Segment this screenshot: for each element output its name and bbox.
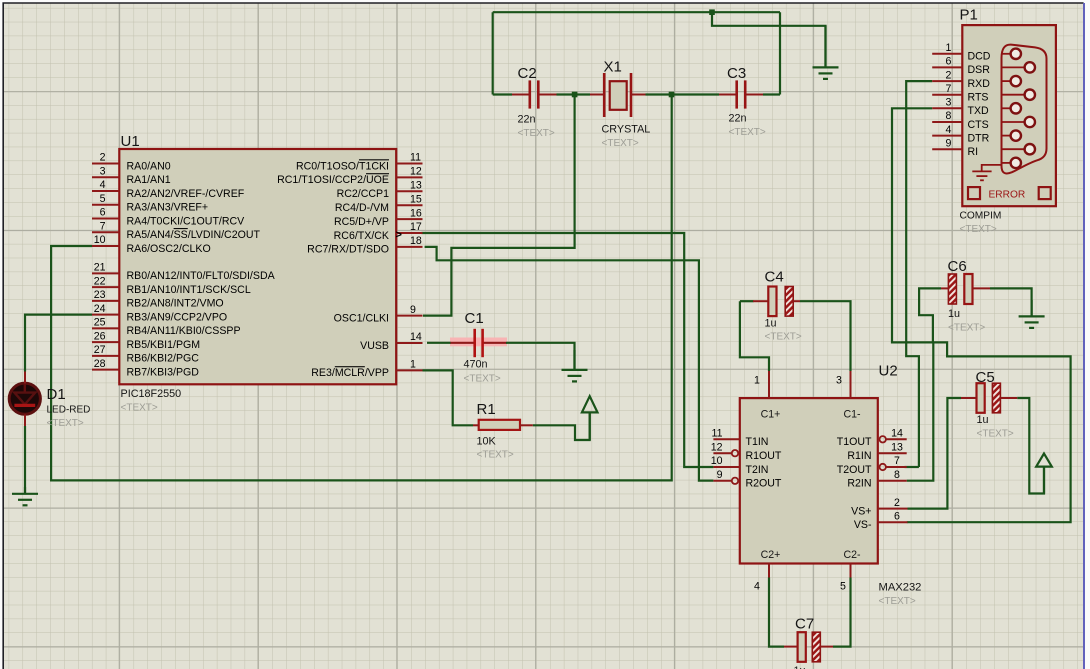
P1 pin 2 RXD: [932, 80, 962, 82]
svg-text:13: 13: [410, 180, 422, 192]
svg-text:<TEXT>: <TEXT>: [518, 128, 555, 139]
svg-text:RA1/AN1: RA1/AN1: [127, 174, 171, 186]
C5 right pin: [1001, 397, 1018, 399]
svg-text:RE3/MCLR/VPP: RE3/MCLR/VPP: [311, 367, 389, 379]
U1 pin 5: [92, 204, 119, 206]
U1 pin 13: [396, 190, 422, 192]
C3 left pin: [719, 94, 737, 96]
svg-text:C4: C4: [765, 269, 784, 286]
svg-text:RA3/AN3/VREF+: RA3/AN3/VREF+: [127, 202, 209, 214]
U2 pin 11 T1IN: [713, 438, 739, 440]
svg-text:5: 5: [100, 193, 106, 205]
R1 left pin: [473, 424, 479, 426]
svg-text:24: 24: [94, 303, 106, 315]
wire: LED cathode down: [24, 426, 26, 494]
capacitor C6 (polarized): [948, 274, 972, 304]
svg-text:RC7/RX/DT/SDO: RC7/RX/DT/SDO: [307, 244, 389, 256]
wire: VS+ to C5 left: [908, 398, 962, 509]
svg-text:>: >: [396, 229, 402, 241]
P1 pin 4 DTR: [932, 135, 962, 137]
wire: RB3 pin 24 to LED anode: [25, 315, 92, 372]
svg-text:RC5/D+/VP: RC5/D+/VP: [334, 216, 389, 228]
svg-text:C1: C1: [465, 310, 484, 327]
svg-text:1: 1: [754, 375, 760, 387]
highlight band on VUSB net: [450, 338, 507, 347]
svg-text:TXD: TXD: [968, 105, 990, 117]
wire: C2 to X1: [557, 93, 591, 95]
svg-text:14: 14: [410, 331, 422, 343]
U1 pin 11: [396, 163, 422, 165]
svg-text:13: 13: [891, 441, 903, 453]
U1 pin 1: [396, 369, 422, 371]
svg-text:DTR: DTR: [968, 132, 990, 144]
svg-text:R2IN: R2IN: [847, 478, 871, 490]
wire: RC7/RX to R2OUT: [425, 247, 714, 481]
U1 pin 16: [396, 218, 422, 220]
svg-text:22: 22: [94, 275, 106, 287]
wire: C3 right: [763, 93, 780, 95]
svg-text:RXD: RXD: [968, 78, 991, 90]
wire: C6 right to ground: [990, 288, 1032, 316]
capacitor C4 (polarized): [768, 287, 793, 317]
svg-text:<TEXT>: <TEXT>: [977, 429, 1014, 440]
U1 pin 27: [92, 355, 119, 357]
svg-text:6: 6: [946, 56, 952, 68]
svg-text:12: 12: [711, 441, 723, 453]
svg-text:RB0/AN12/INT0/FLT0/SDI/SDA: RB0/AN12/INT0/FLT0/SDI/SDA: [127, 270, 276, 282]
svg-text:<TEXT>: <TEXT>: [948, 323, 985, 334]
svg-text:VUSB: VUSB: [360, 340, 389, 352]
svg-text:<TEXT>: <TEXT>: [464, 374, 501, 385]
svg-text:8: 8: [946, 110, 952, 122]
svg-text:RA2/AN2/VREF-/CVREF: RA2/AN2/VREF-/CVREF: [127, 188, 245, 200]
P1 ERROR indicator: [968, 187, 1051, 199]
svg-text:RA5/AN4/SS/LVDIN/C2OUT: RA5/AN4/SS/LVDIN/C2OUT: [127, 229, 261, 241]
C4 left pin: [753, 300, 768, 302]
U1 pin 28: [92, 369, 119, 371]
U2 pin 13 R1IN: [878, 452, 907, 454]
svg-text:10K: 10K: [477, 436, 497, 448]
capacitor C2: [530, 80, 539, 108]
svg-text:<TEXT>: <TEXT>: [477, 450, 514, 461]
wire: MCLR pin1 to R1: [423, 370, 474, 425]
svg-text:5: 5: [840, 581, 846, 593]
svg-text:C2+: C2+: [761, 549, 781, 561]
capacitor C1: [475, 329, 483, 357]
svg-text:470n: 470n: [464, 359, 488, 371]
U2 pin 9 R2OUT: [713, 480, 731, 482]
crystal X1: [604, 73, 631, 117]
C3 right pin: [745, 94, 763, 96]
ground: right of C1: [562, 350, 588, 381]
svg-text:28: 28: [94, 358, 106, 370]
svg-text:RB4/AN11/KBI0/CSSPP: RB4/AN11/KBI0/CSSPP: [127, 325, 241, 337]
svg-text:2: 2: [894, 497, 900, 509]
svg-text:3: 3: [100, 165, 106, 177]
C6 left pin: [941, 287, 948, 289]
ground: below LED: [12, 487, 38, 505]
svg-text:T2IN: T2IN: [746, 464, 769, 476]
U2 pin 2 VS+: [878, 508, 908, 510]
U2 pin 1: [768, 371, 770, 398]
svg-text:7: 7: [894, 455, 900, 467]
C2 right pin: [538, 94, 556, 96]
svg-text:RTS: RTS: [968, 92, 989, 104]
svg-text:18: 18: [410, 235, 422, 247]
P1 COMPIM body: [962, 25, 1056, 206]
wire: C4 left lead: [740, 300, 754, 302]
svg-text:9: 9: [946, 137, 952, 149]
power symbol: +5V arrow near C5: [1036, 454, 1052, 494]
svg-text:C2: C2: [518, 65, 537, 82]
svg-text:RB5/KBI1/PGM: RB5/KBI1/PGM: [127, 339, 201, 351]
svg-text:1: 1: [410, 359, 416, 371]
svg-text:22n: 22n: [518, 114, 536, 126]
D1 cathode pin: [24, 415, 26, 427]
svg-text:<TEXT>: <TEXT>: [47, 418, 84, 429]
U2 pin 12 R1OUT: [713, 452, 731, 454]
svg-text:LED-RED: LED-RED: [47, 405, 91, 416]
svg-text:C2-: C2-: [843, 549, 861, 561]
svg-text:COMPIM: COMPIM: [960, 211, 1002, 222]
svg-text:DSR: DSR: [968, 64, 991, 76]
svg-text:C3: C3: [727, 65, 746, 82]
svg-text:RB2/AN8/INT2/VMO: RB2/AN8/INT2/VMO: [127, 298, 224, 310]
wire: RC6/TX to T2IN: [421, 233, 713, 467]
U1 pin 2: [92, 163, 119, 165]
wire: C5 right to +5V: [1017, 398, 1044, 494]
svg-text:RA0/AN0: RA0/AN0: [127, 160, 171, 172]
wire (red net): C1 right lead: [483, 342, 507, 344]
C4 right pin: [793, 300, 800, 302]
wire: C4 left to C1+ pin 1: [740, 301, 769, 371]
U1 pin 24: [92, 314, 119, 316]
svg-text:<TEXT>: <TEXT>: [765, 332, 802, 343]
LED D1: [9, 383, 40, 414]
svg-text:C1+: C1+: [761, 409, 781, 421]
P1 pin 3 TXD: [932, 107, 962, 109]
svg-text:<TEXT>: <TEXT>: [879, 596, 916, 607]
svg-text:15: 15: [410, 193, 422, 205]
svg-text:2: 2: [100, 152, 106, 164]
svg-text:RC6/TX/CK: RC6/TX/CK: [334, 230, 389, 242]
U1 pin 22: [92, 286, 119, 288]
junction: X1 right node: [669, 92, 675, 98]
wire (red net): C1 left lead: [451, 342, 475, 344]
svg-text:CRYSTAL: CRYSTAL: [602, 124, 651, 136]
power symbol: +5V arrow near R1: [582, 396, 598, 440]
U1 pin 17: [396, 232, 422, 234]
svg-text:T1OUT: T1OUT: [837, 436, 872, 448]
svg-text:R2OUT: R2OUT: [746, 478, 782, 490]
wire: C1 to ground: [506, 343, 575, 370]
svg-text:RC2/CCP1: RC2/CCP1: [337, 188, 390, 200]
svg-text:26: 26: [94, 330, 106, 342]
U1 pin 12: [396, 176, 422, 178]
svg-text:X1: X1: [604, 59, 622, 76]
wire: T2OUT to RXD riser: [905, 466, 919, 468]
svg-text:9: 9: [717, 469, 723, 481]
svg-text:R1OUT: R1OUT: [746, 450, 782, 462]
svg-text:<TEXT>: <TEXT>: [729, 127, 766, 138]
svg-text:16: 16: [410, 207, 422, 219]
svg-text:7: 7: [946, 83, 952, 95]
wire: VS- loop to C6 left: [907, 288, 1071, 522]
svg-text:6: 6: [100, 207, 106, 219]
U2 pin 14 T1OUT: [886, 438, 907, 440]
wire: osc loop left vertical: [492, 12, 494, 94]
U1 pin 26: [92, 341, 119, 343]
U2 pin 3: [850, 371, 852, 398]
svg-text:T2OUT: T2OUT: [837, 464, 872, 476]
svg-text:CTS: CTS: [968, 119, 989, 131]
svg-text:R1: R1: [477, 401, 496, 418]
svg-text:<TEXT>: <TEXT>: [960, 224, 997, 235]
wire: R2IN up riser (TXD): [907, 342, 934, 480]
R1 right pin: [520, 424, 533, 426]
P1 internal ground: [972, 165, 1001, 180]
svg-text:<TEXT>: <TEXT>: [602, 138, 639, 149]
svg-text:RB3/AN9/CCP2/VPO: RB3/AN9/CCP2/VPO: [127, 311, 228, 323]
U1 pin 25: [92, 327, 119, 329]
svg-text:4: 4: [754, 581, 760, 593]
svg-text:RC0/T1OSO/T1CKI: RC0/T1OSO/T1CKI: [296, 160, 389, 172]
svg-text:U2: U2: [879, 363, 898, 380]
U2 pin 6 VS-: [878, 521, 908, 523]
svg-text:3: 3: [836, 375, 842, 387]
wire: X1 right node to RA6/OSC2 pin 10: [51, 95, 672, 481]
U2 pin 8 R2IN: [878, 480, 907, 482]
svg-text:21: 21: [94, 262, 106, 274]
wire: C4 right to C1- pin 3: [800, 301, 851, 371]
svg-text:RI: RI: [968, 146, 979, 158]
svg-text:RC4/D-/VM: RC4/D-/VM: [335, 202, 389, 214]
capacitor C3: [737, 80, 746, 108]
wire: X1 to C3: [646, 93, 720, 95]
U1 pin 15: [396, 204, 422, 206]
P1 pin 7 RTS: [932, 94, 962, 96]
wire: COMPIM RXD down to T2OUT: [906, 81, 932, 467]
svg-text:RB1/AN10/INT1/SCK/SCL: RB1/AN10/INT1/SCK/SCL: [127, 284, 251, 296]
C6 right pin: [973, 287, 990, 289]
U2 pin 4: [768, 564, 770, 578]
svg-text:D1: D1: [47, 386, 66, 403]
P1 pin 9 RI: [932, 148, 962, 150]
svg-text:MAX232: MAX232: [879, 582, 922, 594]
svg-text:11: 11: [410, 152, 421, 164]
U1 pin 23: [92, 300, 119, 302]
wire: C7 to C2- pin 5: [833, 578, 851, 647]
svg-text:1u: 1u: [977, 414, 989, 426]
svg-text:2: 2: [946, 69, 952, 81]
svg-text:RC1/T1OSI/CCP2/UOE: RC1/T1OSI/CCP2/UOE: [277, 174, 389, 186]
resistor R1: [479, 420, 520, 430]
svg-text:22n: 22n: [729, 113, 747, 125]
svg-text:17: 17: [410, 221, 422, 233]
U1 pin 4: [92, 190, 119, 192]
P1 pin 1 DCD: [932, 53, 962, 55]
U2 pin 7 T2OUT: [886, 466, 907, 468]
svg-text:VS+: VS+: [851, 505, 871, 517]
wire: osc top horizontal: [493, 11, 780, 13]
C7 left pin: [784, 646, 798, 648]
U1 PIC18F2550 body: [119, 149, 396, 384]
U1 pin 6: [92, 218, 119, 220]
D1 anode pin: [24, 372, 26, 384]
svg-text:11: 11: [712, 428, 723, 440]
ground: right of C6: [1019, 300, 1045, 328]
svg-text:<TEXT>: <TEXT>: [121, 403, 158, 414]
C5 left pin: [961, 397, 977, 399]
svg-text:1: 1: [946, 42, 952, 54]
svg-text:DCD: DCD: [968, 51, 991, 63]
capacitor C7 (polarized): [798, 632, 821, 662]
svg-text:25: 25: [94, 317, 106, 329]
wire: C2+ pin 4 to C7: [769, 578, 784, 647]
svg-text:OSC1/CLKI: OSC1/CLKI: [334, 312, 389, 324]
svg-text:PIC18F2550: PIC18F2550: [121, 388, 182, 400]
P1 DB9 holes: [1002, 53, 1011, 55]
svg-text:12: 12: [410, 166, 422, 178]
U2 MAX232 body: [740, 398, 878, 563]
U1 pin 21: [92, 272, 119, 274]
svg-text:RA4/T0CKI/C1OUT/RCV: RA4/T0CKI/C1OUT/RCV: [127, 215, 246, 227]
svg-text:9: 9: [410, 304, 416, 316]
X1 left pin: [590, 94, 604, 96]
svg-text:C1-: C1-: [843, 409, 861, 421]
wire: pin14 to C1: [427, 342, 451, 344]
svg-text:C5: C5: [976, 369, 995, 386]
svg-text:8: 8: [894, 469, 900, 481]
wire: top loop to ground: [712, 12, 826, 67]
U1 pin 3: [92, 176, 119, 178]
C2 left pin: [512, 94, 530, 96]
U1 pin 7: [92, 231, 119, 233]
svg-text:R1IN: R1IN: [847, 450, 871, 462]
svg-text:P1: P1: [960, 7, 978, 24]
svg-text:23: 23: [94, 289, 106, 301]
wire: R1 to +5V: [533, 412, 590, 440]
svg-text:T1IN: T1IN: [746, 436, 769, 448]
C7 right pin: [820, 646, 833, 648]
svg-text:10: 10: [711, 455, 723, 467]
wire: C2 left: [493, 93, 512, 95]
junction: top wire: [709, 9, 715, 15]
U1 pin 18: [396, 246, 422, 248]
svg-text:U1: U1: [121, 133, 140, 150]
U1 pin 14: [396, 342, 422, 344]
wire: osc loop right vertical: [779, 12, 781, 94]
svg-text:6: 6: [894, 510, 900, 522]
X1 right pin: [631, 94, 646, 96]
svg-text:1u: 1u: [794, 665, 806, 669]
svg-text:14: 14: [891, 428, 903, 440]
junction: X1 left node: [572, 92, 578, 98]
U2 pin 10 T2IN: [713, 466, 739, 468]
P1 pin 8 CTS: [932, 121, 962, 123]
U1 pin 9: [396, 315, 422, 317]
svg-text:ERROR: ERROR: [989, 189, 1026, 200]
svg-text:4: 4: [100, 179, 106, 191]
U1 pin 10: [92, 245, 119, 247]
capacitor C5 (polarized): [977, 383, 1001, 413]
svg-text:RB7/KBI3/PGD: RB7/KBI3/PGD: [127, 366, 200, 378]
svg-text:10: 10: [94, 234, 106, 246]
P1 pin 6 DSR: [932, 66, 962, 68]
svg-text:3: 3: [946, 97, 952, 109]
svg-text:RA6/OSC2/CLKO: RA6/OSC2/CLKO: [127, 243, 211, 255]
wire: X1 left node to OSC1/CLKI pin 9: [423, 95, 575, 316]
svg-text:1u: 1u: [948, 308, 960, 320]
svg-text:1u: 1u: [765, 318, 777, 330]
svg-text:27: 27: [94, 344, 106, 356]
P1 DB9 connector outline: [1002, 45, 1047, 174]
svg-text:C7: C7: [795, 616, 814, 633]
svg-text:RB6/KBI2/PGC: RB6/KBI2/PGC: [127, 353, 200, 365]
svg-text:7: 7: [100, 220, 106, 232]
svg-text:VS-: VS-: [854, 519, 872, 531]
U2 pin 5: [850, 564, 852, 578]
ground: top right: [813, 26, 839, 79]
svg-text:C6: C6: [948, 258, 967, 275]
svg-text:4: 4: [946, 124, 952, 136]
wire: COMPIM TXD down: [892, 108, 933, 342]
